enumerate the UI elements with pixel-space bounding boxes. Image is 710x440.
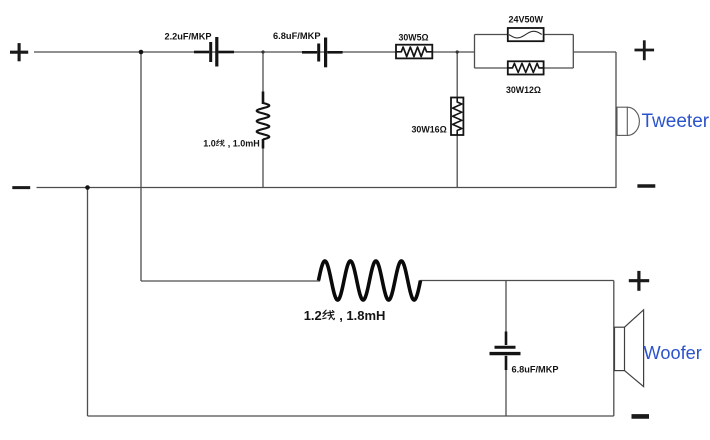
svg-text:6.8uF/MKP: 6.8uF/MKP bbox=[512, 364, 559, 374]
svg-text:6.8uF/MKP: 6.8uF/MKP bbox=[273, 31, 321, 41]
svg-text:Tweeter: Tweeter bbox=[642, 111, 710, 132]
svg-text:, 1.8mH: , 1.8mH bbox=[336, 308, 386, 323]
svg-text:1.2: 1.2 bbox=[304, 308, 322, 323]
svg-text:, 1.0mH: , 1.0mH bbox=[225, 139, 260, 149]
svg-text:2.2uF/MKP: 2.2uF/MKP bbox=[165, 32, 212, 42]
svg-text:30W12Ω: 30W12Ω bbox=[506, 85, 541, 95]
svg-text:Woofer: Woofer bbox=[644, 343, 702, 363]
svg-text:1.0: 1.0 bbox=[203, 139, 216, 149]
svg-text:24V50W: 24V50W bbox=[509, 14, 544, 24]
svg-text:30W5Ω: 30W5Ω bbox=[399, 33, 429, 43]
svg-text:30W16Ω: 30W16Ω bbox=[412, 124, 447, 134]
